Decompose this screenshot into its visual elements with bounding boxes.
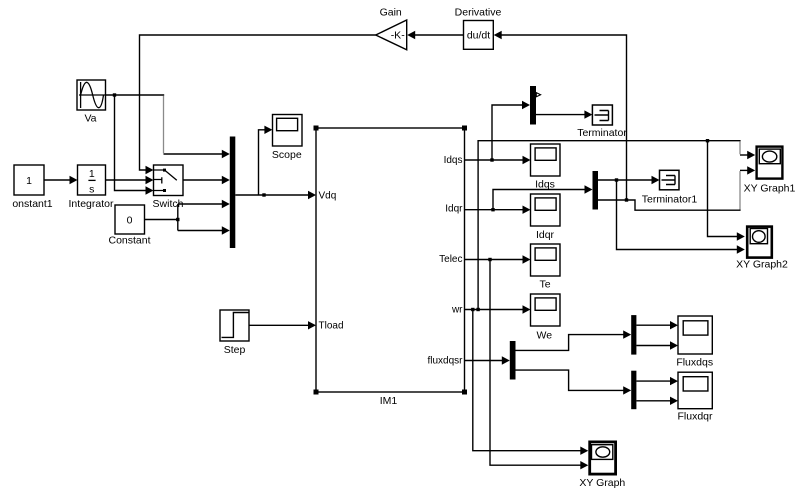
svg-text:XY Graph1: XY Graph1 xyxy=(744,182,796,194)
svg-text:Step: Step xyxy=(224,344,246,356)
svg-text:IM1: IM1 xyxy=(380,395,398,407)
svg-text:-K-: -K- xyxy=(391,29,406,41)
svg-text:Derivative: Derivative xyxy=(455,7,502,19)
svg-text:onstant1: onstant1 xyxy=(12,198,52,210)
svg-text:Idqr: Idqr xyxy=(445,203,463,214)
svg-text:Constant: Constant xyxy=(108,235,150,247)
svg-text:Terminator: Terminator xyxy=(577,127,627,139)
svg-text:Telec: Telec xyxy=(439,254,462,265)
svg-text:Fluxdqr: Fluxdqr xyxy=(677,410,713,422)
svg-text:fluxdqsr: fluxdqsr xyxy=(427,355,463,366)
svg-text:1: 1 xyxy=(89,168,95,180)
svg-text:Va: Va xyxy=(84,113,96,125)
svg-text:Idqr: Idqr xyxy=(536,229,555,241)
svg-text:du/dt: du/dt xyxy=(467,29,490,41)
svg-text:Fluxdqs: Fluxdqs xyxy=(676,356,713,368)
svg-text:Terminator1: Terminator1 xyxy=(642,193,698,205)
svg-text:Integrator: Integrator xyxy=(69,198,114,210)
svg-text:We: We xyxy=(537,330,553,342)
svg-text:Te: Te xyxy=(539,279,550,291)
svg-text:s: s xyxy=(89,184,94,196)
svg-text:Idqs: Idqs xyxy=(444,155,463,166)
svg-text:Idqs: Idqs xyxy=(535,179,555,191)
svg-text:Vdq: Vdq xyxy=(319,190,337,201)
svg-text:0: 0 xyxy=(127,215,133,227)
svg-text:Scope: Scope xyxy=(272,149,302,161)
svg-text:Switch: Switch xyxy=(153,198,184,210)
svg-text:XY Graph: XY Graph xyxy=(579,477,625,489)
svg-text:1: 1 xyxy=(26,175,32,187)
svg-text:Gain: Gain xyxy=(380,7,402,19)
svg-text:XY Graph2: XY Graph2 xyxy=(736,259,788,271)
svg-text:wr: wr xyxy=(451,305,463,316)
svg-text:Tload: Tload xyxy=(319,321,344,332)
